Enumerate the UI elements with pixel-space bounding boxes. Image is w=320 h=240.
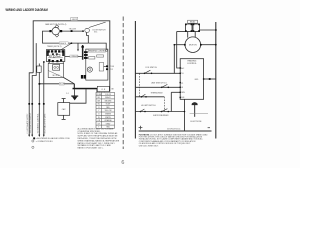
svg-text:TIMER (NOTE 2): TIMER (NOTE 2) [47, 46, 62, 48]
svg-text:YELLOW: YELLOW [104, 110, 111, 112]
svg-text:L1 HOT BLACK SUPPLY: L1 HOT BLACK SUPPLY [26, 113, 29, 134]
svg-text:FAN MOTOR (NOTE 4): FAN MOTOR (NOTE 4) [45, 23, 66, 26]
svg-text:= AS VIEWED BL-GAUGE D WIRE CO: = AS VIEWED BL-GAUGE D WIRE CODE [36, 137, 71, 140]
svg-text:RELAY: RELAY [190, 21, 196, 24]
svg-text:TO HEATING CONTROL: TO HEATING CONTROL [36, 113, 39, 133]
svg-text:YELLOW: YELLOW [69, 29, 76, 31]
svg-text:WIRING AND LADDER DIAGRAM: WIRING AND LADDER DIAGRAM [6, 8, 48, 12]
svg-text:GREEN: GREEN [105, 114, 112, 116]
svg-text:HI LIMIT SWITCH: HI LIMIT SWITCH [141, 105, 156, 107]
svg-text:BLACK: BLACK [60, 42, 67, 45]
svg-text:120V 60HZ 1PH SUPPLY: 120V 60HZ 1PH SUPPLY [30, 112, 32, 133]
svg-text:LIMIT SWITCH N.O.: LIMIT SWITCH N.O. [151, 83, 168, 85]
svg-text:18 VOLTS DC: 18 VOLTS DC [167, 129, 181, 131]
svg-text:CONTROL: CONTROL [187, 63, 198, 65]
svg-text:NEUTRAL WHITE WIRE: NEUTRAL WHITE WIRE [44, 113, 47, 134]
svg-text:BLACK: BLACK [105, 96, 111, 99]
svg-text:CAP.: CAP. [62, 108, 66, 111]
svg-text:CODE: CODE [96, 94, 102, 96]
svg-text:THERMOSTAT: THERMOSTAT [150, 91, 163, 94]
svg-text:J-BOX: J-BOX [72, 19, 78, 21]
svg-text:BROWN: BROWN [105, 101, 112, 103]
svg-text:T: T [98, 127, 99, 129]
svg-text:AL2: AL2 [181, 67, 184, 70]
svg-text:T-BK: T-BK [110, 66, 114, 68]
svg-text:COIL SWITCH: COIL SWITCH [145, 67, 157, 69]
svg-text:6: 6 [121, 160, 124, 166]
svg-text:USE 105C WIRE ONLY.: USE 105C WIRE ONLY. [139, 145, 159, 147]
svg-text:N.O.: N.O. [94, 32, 98, 34]
svg-text:ELECTRODE: ELECTRODE [191, 121, 203, 123]
svg-text:COLOR: COLOR [105, 94, 112, 96]
svg-text:HEATING CONTROL: HEATING CONTROL [89, 50, 107, 53]
svg-text:ORANGE: ORANGE [104, 119, 112, 122]
svg-text:BL: BL [98, 104, 100, 106]
svg-text:ORANGE: ORANGE [71, 55, 80, 58]
svg-text:BK: BK [112, 88, 115, 90]
svg-text:IGNITOR/BURNER: IGNITOR/BURNER [153, 115, 169, 117]
svg-text:T-R: T-R [110, 69, 113, 71]
svg-text:P1: P1 [181, 83, 183, 85]
svg-text:MOTOR: MOTOR [53, 75, 60, 77]
svg-text:C-1: C-1 [66, 93, 69, 95]
svg-text:BLUE: BLUE [60, 84, 65, 86]
svg-text:= CONNECTION NO.: = CONNECTION NO. [36, 141, 54, 143]
svg-text:RATING OF AT LEAST 105 C.: RATING OF AT LEAST 105 C. [78, 147, 104, 150]
svg-text:WHITE: WHITE [105, 117, 111, 119]
svg-text:MOTOR: MOTOR [189, 45, 197, 47]
